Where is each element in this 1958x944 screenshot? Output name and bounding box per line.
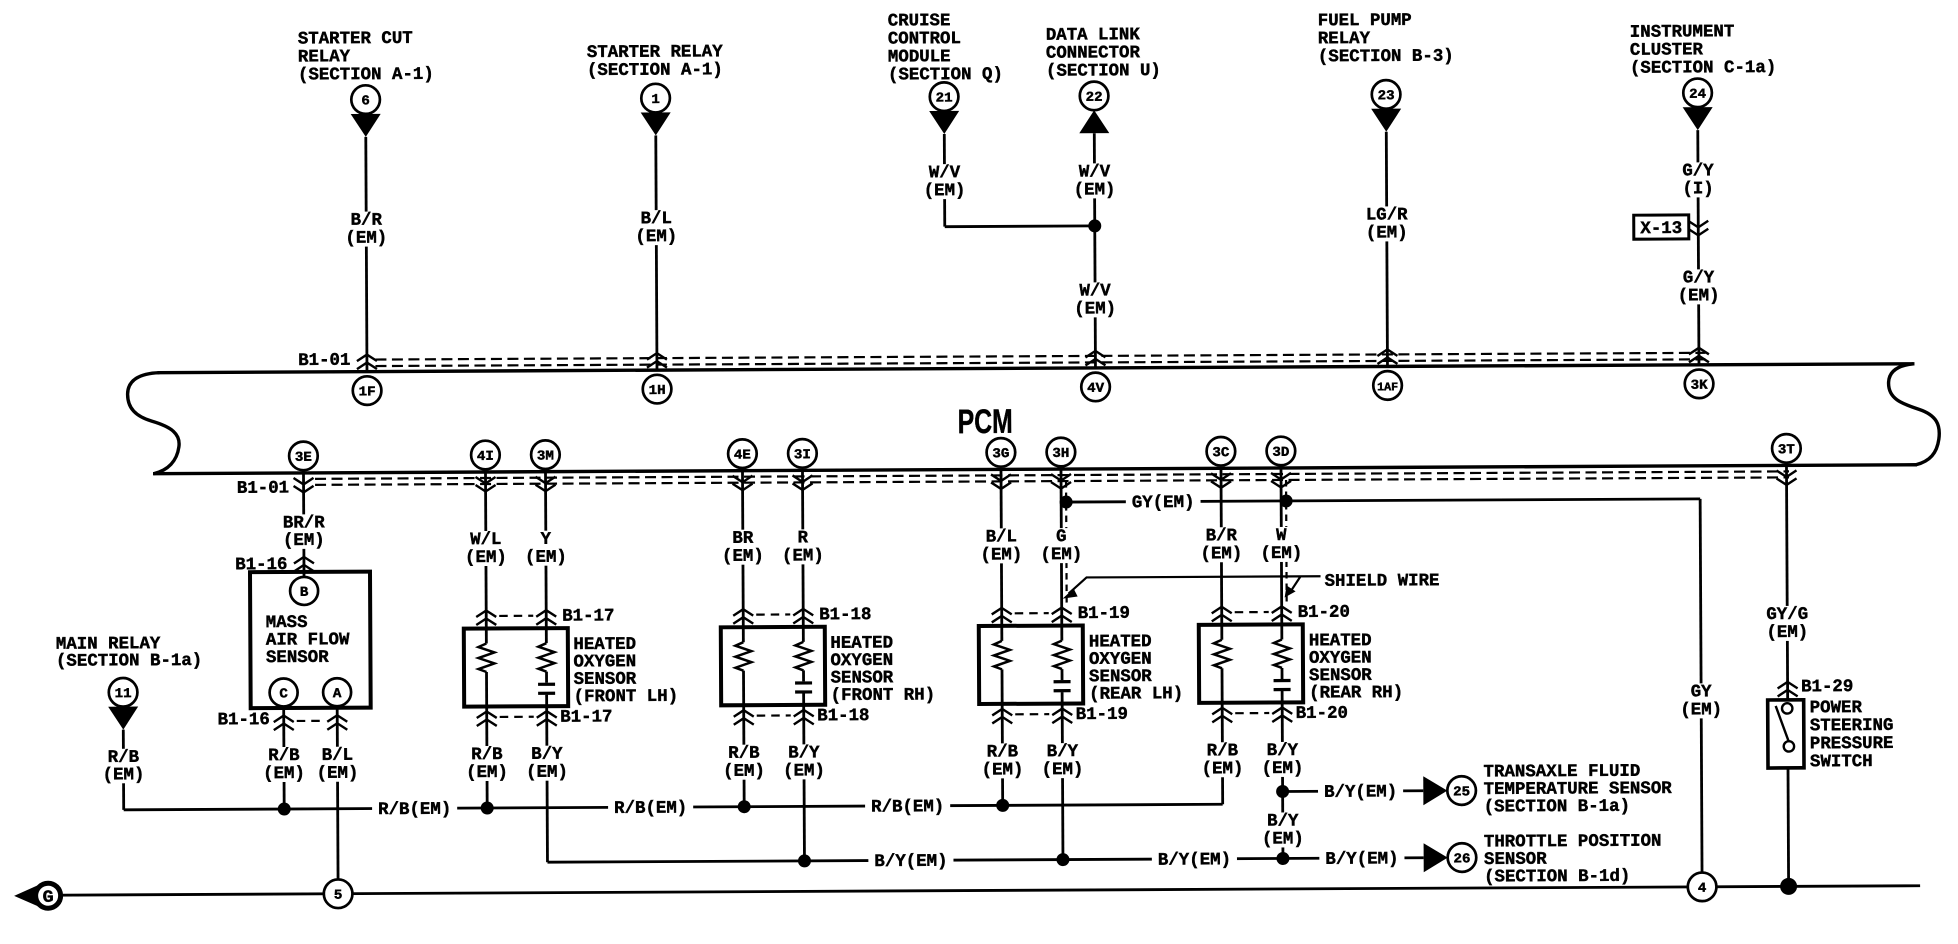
svg-text:B/Y(EM): B/Y(EM) bbox=[1324, 782, 1397, 802]
svg-text:PCM: PCM bbox=[958, 403, 1013, 441]
svg-text:3D: 3D bbox=[1272, 446, 1289, 461]
svg-text:(EM): (EM) bbox=[924, 181, 966, 201]
svg-text:21: 21 bbox=[936, 91, 953, 106]
svg-text:4I: 4I bbox=[477, 450, 494, 465]
svg-text:B1-19: B1-19 bbox=[1078, 604, 1130, 624]
svg-text:3I: 3I bbox=[794, 448, 811, 463]
svg-text:(EM): (EM) bbox=[1260, 544, 1302, 564]
svg-text:24: 24 bbox=[1689, 88, 1706, 103]
svg-text:B1-17: B1-17 bbox=[560, 707, 612, 727]
svg-text:(EM): (EM) bbox=[1202, 759, 1244, 779]
svg-text:(EM): (EM) bbox=[1262, 829, 1304, 849]
svg-text:(EM): (EM) bbox=[1262, 759, 1304, 779]
svg-text:B1-01: B1-01 bbox=[298, 351, 350, 371]
svg-text:(EM): (EM) bbox=[466, 763, 508, 783]
svg-text:(EM): (EM) bbox=[1766, 623, 1808, 643]
svg-text:(SECTION A-1): (SECTION A-1) bbox=[587, 60, 723, 81]
svg-text:3G: 3G bbox=[992, 447, 1009, 462]
svg-text:3E: 3E bbox=[295, 451, 312, 466]
svg-text:(FRONT RH): (FRONT RH) bbox=[831, 685, 936, 706]
svg-text:(REAR RH): (REAR RH) bbox=[1309, 683, 1403, 703]
svg-text:(EM): (EM) bbox=[783, 761, 825, 781]
svg-text:STARTER CUT: STARTER CUT bbox=[298, 29, 413, 50]
svg-text:(EM): (EM) bbox=[1040, 545, 1082, 565]
svg-text:3C: 3C bbox=[1212, 446, 1229, 461]
svg-text:(EM): (EM) bbox=[723, 762, 765, 782]
svg-text:X-13: X-13 bbox=[1640, 219, 1682, 239]
svg-text:B1-16: B1-16 bbox=[217, 710, 269, 730]
svg-text:B/Y(EM): B/Y(EM) bbox=[874, 852, 947, 872]
svg-text:R/B(EM): R/B(EM) bbox=[614, 798, 687, 818]
svg-text:25: 25 bbox=[1453, 785, 1470, 800]
svg-text:1: 1 bbox=[651, 93, 660, 108]
svg-text:(EM): (EM) bbox=[1200, 544, 1242, 564]
svg-text:23: 23 bbox=[1378, 89, 1395, 104]
svg-text:5: 5 bbox=[334, 889, 343, 904]
svg-text:B: B bbox=[300, 586, 309, 601]
svg-text:4E: 4E bbox=[734, 448, 751, 463]
svg-text:R/B(EM): R/B(EM) bbox=[871, 797, 944, 817]
svg-text:3H: 3H bbox=[1052, 447, 1069, 462]
svg-text:(EM): (EM) bbox=[103, 765, 145, 785]
svg-text:(EM): (EM) bbox=[1042, 760, 1084, 780]
svg-text:B1-18: B1-18 bbox=[817, 706, 869, 726]
svg-text:B1-19: B1-19 bbox=[1076, 705, 1128, 725]
svg-text:(EM): (EM) bbox=[526, 763, 568, 783]
svg-text:6: 6 bbox=[361, 94, 370, 109]
svg-text:B/Y(EM): B/Y(EM) bbox=[1325, 849, 1398, 869]
svg-text:A: A bbox=[333, 687, 343, 702]
svg-text:SENSOR: SENSOR bbox=[266, 648, 329, 668]
svg-text:B/Y(EM): B/Y(EM) bbox=[1158, 850, 1231, 870]
svg-text:(EM): (EM) bbox=[1074, 180, 1116, 200]
svg-text:(EM): (EM) bbox=[1680, 700, 1722, 720]
svg-text:B1-17: B1-17 bbox=[562, 606, 614, 626]
svg-text:26: 26 bbox=[1453, 852, 1470, 867]
svg-text:(EM): (EM) bbox=[635, 227, 677, 247]
svg-text:3T: 3T bbox=[1778, 443, 1795, 458]
svg-text:(SECTION U): (SECTION U) bbox=[1046, 61, 1161, 82]
svg-text:(EM): (EM) bbox=[465, 548, 507, 568]
svg-text:(EM): (EM) bbox=[982, 760, 1024, 780]
svg-text:(EM): (EM) bbox=[525, 548, 567, 568]
svg-text:1AF: 1AF bbox=[1377, 381, 1398, 394]
svg-text:(EM): (EM) bbox=[782, 546, 824, 566]
svg-text:(EM): (EM) bbox=[283, 531, 325, 551]
svg-text:G: G bbox=[43, 889, 54, 908]
svg-text:(EM): (EM) bbox=[722, 547, 764, 567]
svg-text:(EM): (EM) bbox=[1678, 286, 1720, 306]
svg-text:B1-01: B1-01 bbox=[237, 478, 289, 498]
svg-text:(SECTION C-1a): (SECTION C-1a) bbox=[1630, 58, 1776, 79]
svg-text:SWITCH: SWITCH bbox=[1810, 752, 1873, 772]
svg-text:B1-18: B1-18 bbox=[819, 605, 871, 625]
svg-text:B1-29: B1-29 bbox=[1801, 677, 1853, 697]
svg-text:R/B(EM): R/B(EM) bbox=[378, 800, 451, 820]
svg-text:(REAR LH): (REAR LH) bbox=[1089, 684, 1183, 704]
svg-text:1F: 1F bbox=[359, 385, 376, 400]
svg-text:(EM): (EM) bbox=[263, 764, 305, 784]
svg-text:(EM): (EM) bbox=[1366, 223, 1408, 243]
svg-text:4V: 4V bbox=[1087, 382, 1105, 397]
svg-text:4: 4 bbox=[1698, 882, 1707, 897]
svg-text:3K: 3K bbox=[1691, 379, 1709, 394]
svg-text:C: C bbox=[279, 687, 288, 702]
svg-text:(FRONT LH): (FRONT LH) bbox=[574, 687, 679, 708]
svg-text:SHIELD WIRE: SHIELD WIRE bbox=[1325, 571, 1440, 592]
svg-text:(SECTION B-1d): (SECTION B-1d) bbox=[1484, 867, 1630, 888]
svg-text:(EM): (EM) bbox=[1074, 299, 1116, 319]
svg-text:22: 22 bbox=[1086, 91, 1103, 106]
svg-text:(EM): (EM) bbox=[980, 545, 1022, 565]
svg-text:11: 11 bbox=[115, 687, 132, 702]
svg-text:(SECTION B-1a): (SECTION B-1a) bbox=[1484, 797, 1630, 818]
svg-text:(SECTION B-1a): (SECTION B-1a) bbox=[56, 651, 202, 672]
svg-text:3M: 3M bbox=[537, 449, 554, 464]
svg-text:B1-20: B1-20 bbox=[1296, 704, 1348, 724]
svg-text:B1-16: B1-16 bbox=[235, 555, 287, 575]
svg-text:(EM): (EM) bbox=[345, 228, 387, 248]
svg-text:GY(EM): GY(EM) bbox=[1132, 493, 1195, 513]
svg-text:B1-20: B1-20 bbox=[1298, 603, 1350, 623]
svg-text:(SECTION B-3): (SECTION B-3) bbox=[1318, 47, 1454, 68]
svg-text:(I): (I) bbox=[1682, 179, 1713, 199]
svg-text:(SECTION A-1): (SECTION A-1) bbox=[298, 65, 434, 86]
svg-text:1H: 1H bbox=[649, 384, 666, 399]
svg-text:(EM): (EM) bbox=[317, 764, 359, 784]
